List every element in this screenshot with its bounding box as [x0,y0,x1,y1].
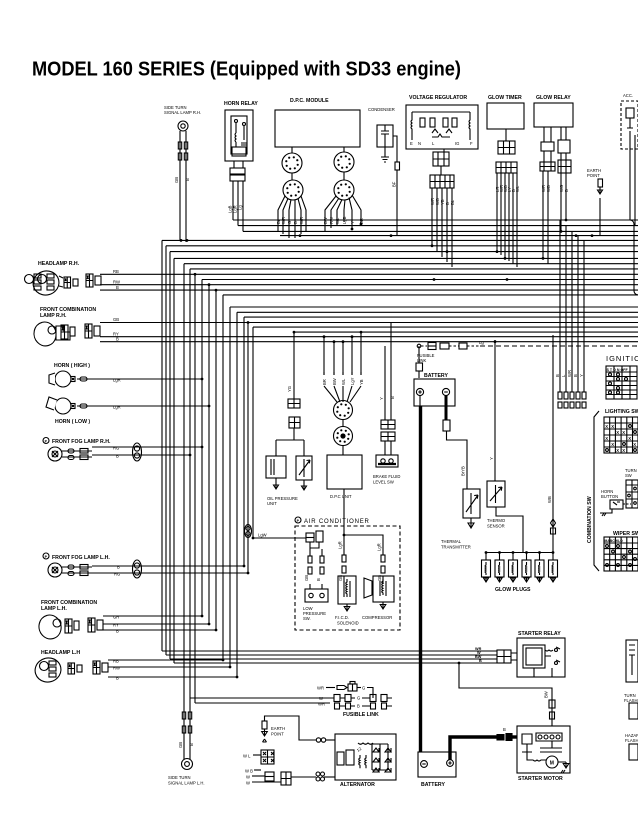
svg-text:SIGNAL LAMP R.H.: SIGNAL LAMP R.H. [164,110,201,115]
svg-text:RW: RW [113,666,120,671]
svg-text:B: B [116,629,119,634]
svg-text:YG: YG [287,386,292,392]
svg-text:IG: IG [455,141,459,146]
svg-text:LgB: LgB [342,216,347,224]
svg-text:FRONT FOG LAMP L.H.: FRONT FOG LAMP L.H. [52,555,110,561]
svg-text:RB: RB [113,269,119,274]
svg-text:G: G [357,696,360,701]
svg-text:B: B [117,565,120,570]
svg-text:WR: WR [567,370,572,377]
svg-text:B: B [555,374,560,377]
svg-text:GLOW PLUGS: GLOW PLUGS [495,587,531,593]
svg-text:X: X [628,436,631,441]
svg-text:X: X [622,430,625,435]
svg-text:WB: WB [547,496,552,503]
svg-text:WL: WL [515,185,520,192]
svg-text:B: B [293,221,298,224]
svg-text:G: G [287,221,292,224]
svg-text:MABCHILO: MABCHILO [605,539,624,543]
svg-text:B: B [357,704,360,709]
svg-text:WR: WR [281,217,286,224]
svg-text:W: W [246,781,250,786]
svg-text:LAMP L.H.: LAMP L.H. [41,606,67,612]
svg-text:W L: W L [243,754,251,759]
svg-text:Lg: Lg [238,205,243,210]
svg-text:X: X [611,442,614,447]
svg-text:D.P.C UNIT: D.P.C UNIT [330,494,352,499]
svg-text:F: F [470,141,473,146]
svg-text:RG: RG [113,446,119,451]
svg-text:MODEL 160 SERIES (Equipped wit: MODEL 160 SERIES (Equipped with SD33 eng… [32,59,461,81]
svg-text:HORN RELAY: HORN RELAY [224,101,258,107]
svg-text:WR: WR [318,702,325,707]
svg-text:SW.: SW. [303,616,311,621]
svg-text:AIR CONDITIONER: AIR CONDITIONER [304,519,370,525]
svg-text:GLOW RELAY: GLOW RELAY [536,95,571,101]
svg-text:B: B [116,454,119,459]
svg-text:B: B [185,178,190,181]
svg-text:GR: GR [113,615,119,620]
svg-text:ALTERNATOR: ALTERNATOR [340,782,375,788]
svg-text:GLOW TIMER: GLOW TIMER [488,95,522,101]
svg-text:YB: YB [359,379,364,385]
svg-text:B: B [116,285,119,290]
svg-text:FUSIBLE LINK: FUSIBLE LINK [343,712,379,718]
svg-text:LINK: LINK [417,358,427,363]
svg-text:FLASHER: FLASHER [624,698,638,703]
svg-text:WR: WR [317,686,324,691]
svg-text:HEADLAMP L.H: HEADLAMP L.H [41,650,80,656]
svg-text:B: B [479,659,482,663]
svg-text:F.I.C.D.: F.I.C.D. [335,615,349,620]
svg-text:WL: WL [335,217,340,224]
svg-text:Y: Y [379,397,384,400]
svg-text:CONDENSER: CONDENSER [368,107,395,112]
svg-text:POINT: POINT [587,173,600,178]
svg-text:THERMO: THERMO [487,518,506,523]
svg-text:LIGHTING SW: LIGHTING SW [605,409,638,415]
svg-text:BF: BF [392,181,397,187]
svg-text:STARTER MOTOR: STARTER MOTOR [518,776,563,782]
svg-text:X: X [611,424,614,429]
svg-text:B: B [573,374,578,377]
svg-text:N: N [418,141,421,146]
svg-text:RB: RB [113,659,119,664]
svg-text:B: B [116,676,119,681]
svg-text:HEADLAMP R.H.: HEADLAMP R.H. [38,261,80,267]
svg-text:X: X [605,436,608,441]
svg-text:LAMP R.H.: LAMP R.H. [40,313,67,319]
svg-text:WIPER SW: WIPER SW [613,531,638,537]
svg-text:SOLENOID: SOLENOID [337,621,359,626]
svg-text:IGNITION SW: IGNITION SW [606,354,638,363]
svg-text:LEVEL SW: LEVEL SW [373,480,394,485]
svg-text:B: B [116,336,119,341]
svg-text:SW: SW [625,473,632,478]
svg-text:WB: WB [546,185,551,192]
svg-text:B: B [189,743,194,746]
svg-text:RW: RW [329,217,334,224]
svg-text:W: W [246,775,250,780]
svg-text:E: E [410,141,413,146]
svg-text:COMPRESSOR: COMPRESSOR [362,615,392,620]
svg-text:SIGNAL LAMP L.H.: SIGNAL LAMP L.H. [168,781,205,786]
svg-text:EARTH: EARTH [271,726,285,731]
svg-text:X: X [616,430,619,435]
svg-text:BL: BL [450,199,455,205]
svg-text:BW: BW [323,217,328,224]
svg-text:THERMAL: THERMAL [441,539,462,544]
svg-text:LgR: LgR [338,541,343,549]
svg-text:X: X [622,448,625,453]
svg-text:COMBINATION SW: COMBINATION SW [587,496,593,543]
svg-text:LgY: LgY [350,377,355,385]
svg-text:X: X [633,442,636,447]
svg-text:D.P.C. MODULE: D.P.C. MODULE [290,98,329,104]
svg-text:RW: RW [113,279,120,284]
svg-text:B: B [503,727,506,732]
svg-text:GB: GB [174,177,179,183]
svg-text:BW: BW [332,378,337,385]
svg-text:GB: GB [178,742,183,748]
svg-text:ACC.: ACC. [623,93,633,98]
svg-text:FLASHER: FLASHER [625,738,638,743]
svg-text:Lg: Lg [479,340,484,345]
svg-text:LgR: LgR [113,378,121,383]
svg-text:WR: WR [299,217,304,224]
svg-text:B: B [390,396,395,399]
svg-text:FRONT FOG LAMP R.H.: FRONT FOG LAMP R.H. [52,439,111,445]
svg-text:S T O N OFF: S T O N OFF [607,368,629,372]
svg-text:VOLTAGE REGULATOR: VOLTAGE REGULATOR [409,95,467,101]
svg-text:BUTTON: BUTTON [601,494,618,499]
svg-text:BR: BR [359,218,364,224]
svg-text:Y: Y [350,221,355,224]
svg-text:STARTER RELAY: STARTER RELAY [518,631,561,637]
svg-text:BrYB: BrYB [461,466,466,476]
svg-text:BW: BW [544,691,549,698]
svg-text:UNIT: UNIT [267,501,277,506]
svg-text:SIDE TURN: SIDE TURN [168,775,191,780]
svg-text:W B: W B [245,769,253,774]
svg-text:M: M [550,761,554,767]
svg-text:X: X [616,448,619,453]
svg-text:GB: GB [304,575,309,581]
svg-text:G: G [362,686,365,691]
svg-text:B: B [564,189,569,192]
svg-text:BATTERY: BATTERY [421,782,445,788]
svg-text:X: X [605,424,608,429]
svg-text:BR: BR [322,379,327,385]
svg-text:LgR: LgR [377,543,382,551]
svg-text:LgR: LgR [113,405,121,410]
svg-text:BRAKE FLUID: BRAKE FLUID [373,474,400,479]
svg-text:Y: Y [579,374,584,377]
svg-text:WL: WL [341,378,346,385]
svg-text:GB: GB [113,317,119,322]
svg-text:HORN ( LOW ): HORN ( LOW ) [55,419,90,425]
svg-text:B: B [316,578,321,581]
svg-text:RG: RG [114,572,120,577]
svg-text:BATTERY: BATTERY [424,373,448,379]
svg-text:TRANSMITTER: TRANSMITTER [441,545,471,550]
svg-text:LgW: LgW [258,533,267,538]
svg-text:Y: Y [489,457,494,460]
svg-text:SENSOR: SENSOR [487,524,505,529]
svg-text:RY: RY [113,623,119,628]
svg-text:HORN ( HIGH ): HORN ( HIGH ) [54,363,90,369]
svg-text:POINT: POINT [271,732,284,737]
